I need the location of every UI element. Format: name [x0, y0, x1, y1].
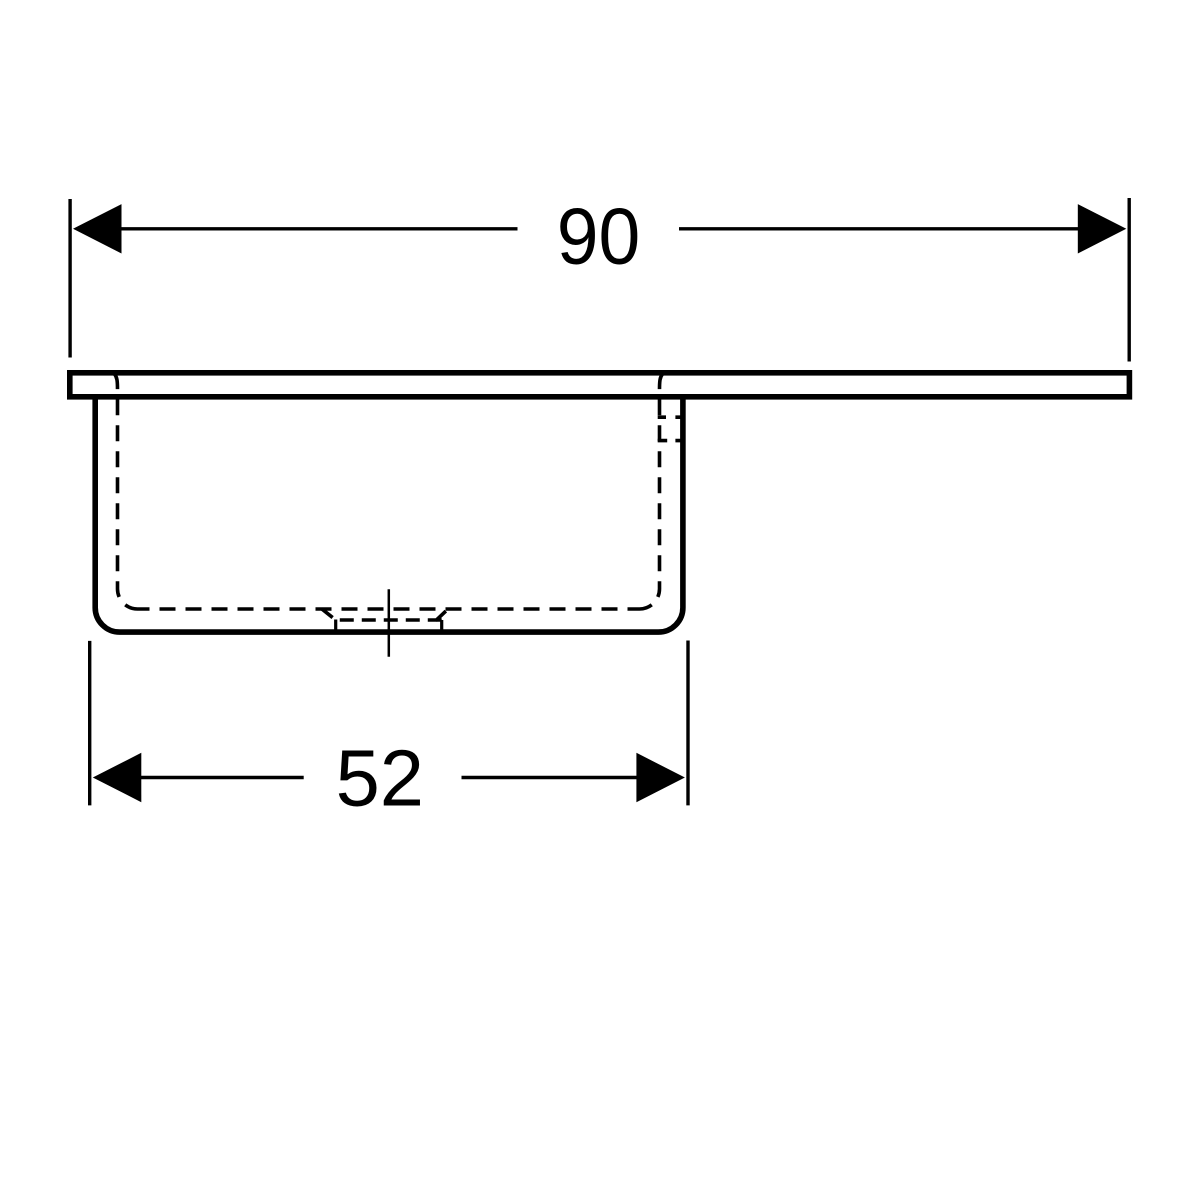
arrowhead left (dim 52) — [93, 753, 142, 802]
svg-text:90: 90 — [557, 192, 641, 281]
overflow step hidden line upper (dashed) — [658, 415, 681, 419]
extension line left (dim 90) — [68, 199, 71, 358]
overflow step hidden line lower (dashed) — [658, 439, 681, 443]
extension line right (dim 90) — [1127, 198, 1130, 362]
drain centerline — [388, 589, 391, 657]
extension line right (dim 52) — [686, 641, 689, 806]
arrowhead right (dim 90) — [1078, 204, 1127, 253]
dimension line 90 right segment — [679, 227, 1081, 230]
arrowhead left (dim 90) — [73, 204, 122, 253]
drain recess left tick — [334, 620, 337, 630]
inner rim hidden line bottom (dashed) — [138, 607, 640, 611]
inner rim hidden line left (dashed) — [114, 374, 137, 609]
drain recess right tick — [440, 620, 443, 630]
sink bowl outer profile — [95, 396, 683, 632]
extension line left (dim 52) — [88, 641, 91, 806]
inner rim hidden line right (dashed) — [640, 374, 663, 609]
dimension line 52 left segment — [140, 776, 304, 779]
countertop — [70, 373, 1130, 397]
dimension line 90 left segment — [118, 227, 518, 230]
drain recess hidden outline (dashed) — [322, 609, 448, 621]
svg-text:52: 52 — [336, 733, 424, 822]
arrowhead right (dim 52) — [636, 753, 685, 802]
dimension line 52 right segment — [462, 776, 639, 779]
